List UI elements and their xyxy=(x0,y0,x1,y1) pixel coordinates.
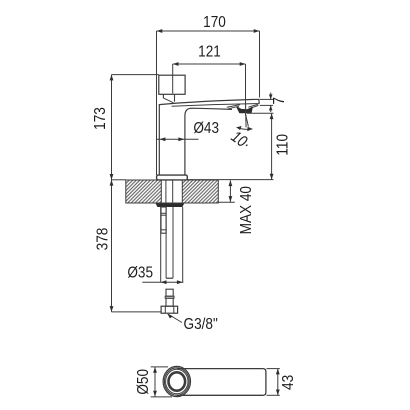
svg-text:10·: 10· xyxy=(227,128,253,153)
svg-text:378: 378 xyxy=(94,228,111,251)
svg-text:170: 170 xyxy=(203,14,226,31)
svg-text:43: 43 xyxy=(280,375,297,390)
svg-text:110: 110 xyxy=(274,134,291,156)
svg-text:Ø43: Ø43 xyxy=(193,120,219,137)
svg-text:G3/8": G3/8" xyxy=(184,316,218,333)
svg-text:7: 7 xyxy=(271,97,288,105)
svg-text:121: 121 xyxy=(198,44,221,61)
svg-text:173: 173 xyxy=(92,107,109,130)
svg-text:Ø50: Ø50 xyxy=(135,369,152,395)
svg-text:MAX 40: MAX 40 xyxy=(238,186,255,234)
svg-text:Ø35: Ø35 xyxy=(127,264,153,281)
